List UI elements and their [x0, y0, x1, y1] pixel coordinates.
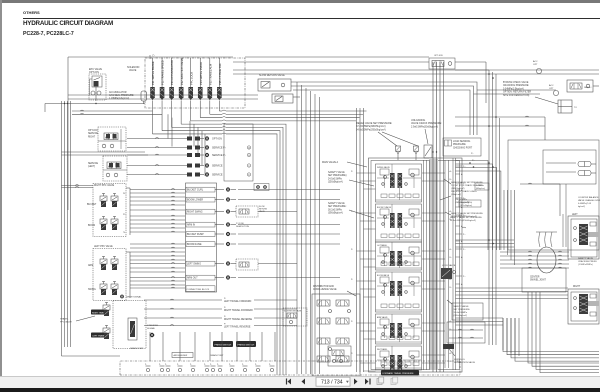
slow return valve V-SR2 (lower): [272, 94, 293, 103]
note: unloading valve crack pressure: [411, 119, 442, 144]
check fittings on left travel motor lines: [578, 162, 596, 176]
wire: vertical drops into tank: [62, 332, 276, 361]
pressure switch SW1: [213, 341, 233, 347]
wire: lines main valve to swing area: [456, 227, 569, 325]
option service valve block B1: [88, 127, 126, 151]
return filter F1 (option): [558, 100, 577, 113]
wire: hose fan-out from solenoid manifold: [153, 108, 367, 375]
black label: forward travel pressure: [381, 370, 419, 376]
wire: riser lines at main valve left: [357, 108, 364, 372]
label: solenoid valve bank: [127, 66, 140, 72]
port pair on pilot manifold: [254, 184, 269, 191]
note: relief valve set pressure: [356, 122, 418, 146]
travel PPC valve assembly: [60, 301, 146, 349]
wire: left pilot bus verticals: [45, 101, 145, 347]
note: safety valve set pressure 38.2MPa: [445, 212, 484, 218]
wire: pilot lines from slow return valves eastward: [68, 82, 477, 135]
toolbar page number input: [316, 377, 350, 386]
steering signal port: [147, 325, 158, 337]
connecting block J1: [186, 183, 237, 292]
slow return valve V-SR1: [258, 74, 291, 91]
wire: work lines to left travel motor: [456, 161, 577, 251]
self reducing valve: [328, 346, 351, 366]
wire: right return verticals: [233, 70, 599, 345]
lock valve V-L1: [441, 264, 456, 279]
wire: upper feed to left travel motor: [520, 183, 560, 216]
note: swing LS separation valve: [454, 359, 476, 364]
note: bypass check valve cracking pressure: [503, 81, 558, 104]
unloading valve assembly U1: [395, 145, 432, 160]
swing LS separation valve body: [443, 344, 455, 356]
wire: main riser bundle to distributor: [297, 82, 320, 374]
toolbar page-copy icon 2: [391, 377, 398, 385]
solenoid valve SOL1: [150, 58, 155, 108]
accumulator circle ACC (option): [533, 60, 542, 74]
two-stage relief pilot valve: [233, 55, 486, 103]
slow return valve V-SR4 (left swing): [236, 259, 297, 270]
wire: pilot supply top bus: [68, 55, 233, 210]
main valve work port labels: [450, 170, 452, 363]
toolbar last-page button: [365, 379, 370, 385]
note: motor safety valve cracking pressure: [578, 257, 597, 266]
hydraulic tank (dash-dot outline): [120, 361, 460, 375]
distributor and confluence valve block: [312, 285, 360, 376]
right PPC valve assembly: [87, 184, 130, 237]
label: demolition note: [236, 222, 249, 228]
wire: service drops from fan band to couplers: [190, 121, 205, 176]
hose loop box (swing lines): [447, 322, 485, 343]
solenoid valve SOL2: [160, 58, 165, 108]
service port coupler group: [127, 124, 253, 181]
center swivel joint: [500, 232, 569, 282]
left travel motor group enclosure: [508, 140, 599, 250]
main valve section: BUCKET VALVE: [351, 204, 445, 242]
header rule: [23, 18, 600, 19]
safety valve pressure note box (swing): [447, 300, 483, 320]
boxed pressure values: [459, 183, 489, 207]
main valve section: ARM VALVE: [351, 314, 445, 344]
note: safety valve 34.3MPa: [450, 216, 483, 222]
wire: second riser bundle from fan band: [0, 0, 1, 1]
option service valve block B2: [88, 156, 127, 181]
solenoid valve SOL7: [208, 58, 213, 108]
EPC valve U-EPC (option): [89, 68, 106, 101]
main control valve enclosure: [322, 158, 462, 372]
travel motor M1 (left): [568, 214, 599, 259]
wire: swivel box verticals down: [528, 292, 599, 373]
drive signal port: [120, 295, 142, 299]
note: safety valve set pressure 38.2MPa (left): [328, 202, 374, 218]
accumulator ACC1 with gas seal pressure note: [109, 91, 147, 104]
main valve section: RH TRAVEL: [351, 346, 445, 371]
main valve right port stubs: [456, 165, 467, 286]
note: counterbalance valve change over: [578, 196, 600, 208]
model subtitle: [23, 31, 74, 37]
solenoid valve SOL6: [198, 58, 203, 108]
section label OTHERS: [23, 10, 40, 15]
main valve section: BOOM VALVE: [351, 272, 445, 312]
wire: right side cross lines upper: [455, 116, 545, 140]
solenoid valve SOL3: [169, 58, 174, 108]
bypass check valve assembly: [567, 80, 599, 92]
tank strainer and drain fittings: [145, 364, 275, 372]
wire: pilot lines from EPC leftward: [72, 110, 172, 146]
pressure switch SW2: [236, 341, 256, 347]
viewer window left edge: [0, 0, 2, 376]
left PPC valve assembly: [88, 245, 130, 301]
pdf toolbar: [0, 376, 600, 388]
note: safety valve set pressure 24.5MPa: [328, 171, 374, 186]
toolbar first-page button: [287, 379, 292, 385]
slow return valve V-SR5: [283, 308, 307, 326]
main valve section: SWING VALVE: [351, 164, 445, 202]
main valve section: LH TRAVEL: [351, 242, 445, 270]
page title: [23, 20, 113, 27]
wire: right mid verticals to swivel: [503, 190, 519, 356]
solenoid valve SOL8: [217, 58, 222, 108]
wire: bottom right exit bundle: [503, 318, 599, 361]
wire: pump lines above main valve: [432, 62, 443, 372]
toolbar page-copy icon 1: [377, 377, 384, 385]
wire: PPC hoses to connecting block: [130, 189, 185, 288]
slow return valve V-SR3 (right swing): [236, 206, 297, 217]
pump supply gallery (shaded): [429, 62, 440, 372]
wire: double hose pair at left bus: [62, 152, 149, 188]
toolbar next button: [354, 379, 358, 385]
viewer window top edge: [0, 0, 600, 3]
air bleeder label box: [172, 353, 193, 358]
accumulator circle ACC2 (option): [549, 84, 559, 96]
main valve internal port rail: [424, 160, 449, 370]
travel motor M2 (right): [568, 286, 599, 324]
wire: connecting block outputs east: [238, 190, 340, 278]
toolbar prev button: [302, 379, 306, 385]
solenoid valve SOL4: [179, 58, 184, 108]
svg-text:713 / 734: 713 / 734: [321, 379, 343, 385]
note: two-step safety valve pressures: [440, 179, 485, 204]
wire: travel PPC output lines: [144, 297, 297, 329]
main valve right boundary rails: [453, 158, 456, 370]
solenoid valve SOL5: [188, 58, 193, 108]
solenoid valve manifold enclosure: [145, 58, 245, 108]
note: load sensing pressure checking port: [443, 138, 481, 162]
swing machinery box below swivel: [522, 184, 566, 292]
junction dots right side: [469, 73, 497, 244]
